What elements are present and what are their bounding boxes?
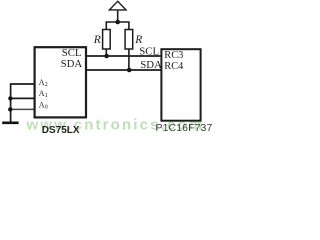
wire: right resistor to SDA [128, 49, 130, 70]
chip U2 PIC16F737 body [161, 49, 200, 121]
wire SDA bus [85, 69, 162, 71]
chip U1 DS75LX body [35, 47, 86, 117]
svg-text:P1C16F737: P1C16F737 [156, 122, 213, 134]
wire: branch to resistors [106, 22, 129, 30]
svg-text:RC3: RC3 [164, 50, 183, 61]
svg-text:A2: A2 [39, 78, 48, 88]
svg-text:RC4: RC4 [164, 61, 184, 72]
svg-text:SCL: SCL [139, 46, 159, 58]
svg-text:A0: A0 [39, 101, 48, 111]
resistor R (right pull-up) [125, 30, 133, 50]
wire: VCC stem [117, 11, 119, 22]
node: A0 junction [8, 107, 12, 111]
svg-text:A1: A1 [39, 89, 48, 99]
wire: A2 pin to address bus [11, 84, 35, 122]
ground [2, 122, 18, 125]
power supply symbol VCC [109, 1, 126, 10]
node: pull-up branch junction [115, 20, 120, 25]
resistor R (left pull-up) [103, 30, 111, 50]
svg-text:R: R [134, 34, 142, 46]
wire: left resistor to SCL [105, 49, 107, 56]
node: A1 junction [8, 96, 12, 100]
node: SCL pull-up junction [104, 54, 109, 59]
svg-text:DS75LX: DS75LX [42, 125, 80, 136]
wire: A0 pin [10, 108, 34, 110]
svg-text:SDA: SDA [140, 59, 162, 71]
svg-text:R: R [93, 34, 101, 46]
node: SDA pull-up junction [127, 68, 132, 73]
svg-text:SDA: SDA [61, 58, 83, 70]
wire: A1 pin [10, 97, 34, 99]
wire SCL bus [85, 55, 162, 57]
